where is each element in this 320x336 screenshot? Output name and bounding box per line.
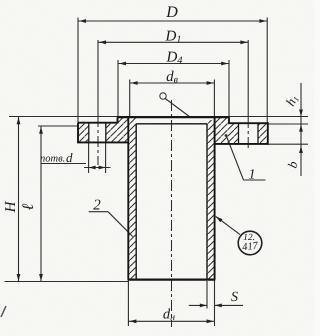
svg-text:1: 1 <box>249 168 256 183</box>
svg-text:D: D <box>165 4 178 21</box>
svg-text:ℓ: ℓ <box>20 203 37 210</box>
svg-text:d: d <box>66 150 73 165</box>
svg-text:H: H <box>3 200 19 213</box>
svg-text:S: S <box>231 290 238 305</box>
svg-text:2: 2 <box>93 198 101 214</box>
svg-text:потв.: потв. <box>40 154 65 165</box>
svg-text:417: 417 <box>242 240 260 253</box>
